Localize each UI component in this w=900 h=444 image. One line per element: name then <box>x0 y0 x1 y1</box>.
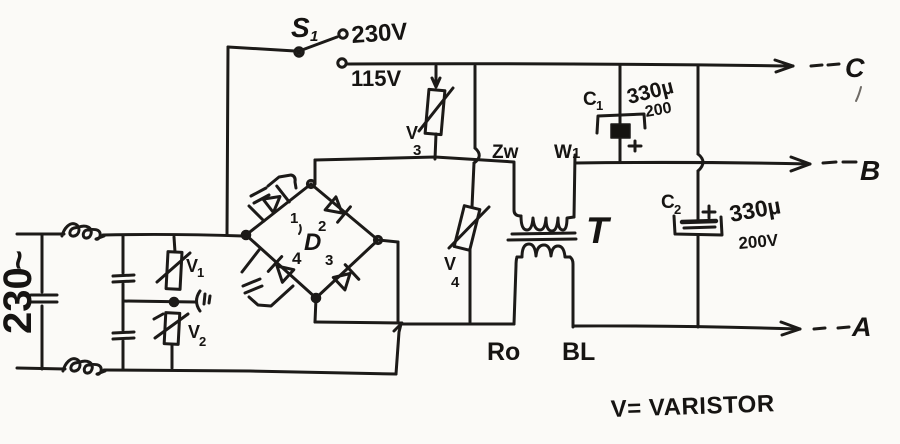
varistor V4 diagonal stroke <box>449 207 489 248</box>
varistor V2 tick <box>154 314 163 319</box>
svg-text:B: B <box>860 155 880 186</box>
svg-text:3: 3 <box>413 142 421 159</box>
wire: node Zw horizontal from bridge top to transformer primary <box>315 157 514 162</box>
svg-text:200V: 200V <box>738 231 780 253</box>
dash marks rail B <box>823 162 856 163</box>
snubber capacitor D4 plates <box>243 279 262 293</box>
svg-text:C: C <box>661 192 675 213</box>
svg-text:~: ~ <box>0 250 38 270</box>
transformer core lines <box>508 233 576 240</box>
varistor V1 top lead <box>174 237 175 252</box>
capacitor C2 plus sign <box>703 206 715 218</box>
transformer primary winding <box>521 216 574 231</box>
capacitor C2 plates <box>682 221 716 222</box>
wire hop over rail B <box>698 154 703 171</box>
varistor V2 bottom lead <box>171 345 174 368</box>
svg-text:1: 1 <box>596 98 603 113</box>
snubber capacitor loop over D4: upper link <box>242 250 259 272</box>
bridge edge left-top <box>246 184 311 235</box>
junction node dot V1-V2 midpoint <box>170 298 178 306</box>
wire from top-left corner to S1 pivot <box>228 47 295 51</box>
diode D2 cathode bar <box>338 207 351 222</box>
bridge vertex left <box>242 231 250 239</box>
switch S1 230V contact <box>339 30 347 38</box>
filter capacitor column middle segment <box>122 284 125 330</box>
diode D2 triangle <box>325 197 342 213</box>
wire junction to transformer primary Ro <box>401 323 514 326</box>
svg-text:Zw: Zw <box>492 142 519 163</box>
varistor V4 bottom lead <box>469 249 472 322</box>
varistor V2 body <box>164 313 180 345</box>
svg-text:V= VARISTOR: V= VARISTOR <box>610 390 775 423</box>
filter capacitor column upper segment <box>122 236 125 273</box>
switch S1 115V contact <box>338 59 346 67</box>
transformer primary lead left riser <box>514 163 521 216</box>
wire bridge right vertex to drop <box>378 240 398 242</box>
transformer secondary lead left riser Ro <box>514 257 517 324</box>
svg-text:2: 2 <box>318 218 326 235</box>
bridge vertex top <box>307 180 314 187</box>
capacitor C1 bracket <box>597 114 645 133</box>
arrowhead rail B <box>791 157 810 171</box>
wire hop over Zw line <box>474 148 479 163</box>
svg-text:330µ: 330µ <box>727 192 782 227</box>
filter capacitor plates upper <box>113 275 134 282</box>
svg-text:1: 1 <box>290 210 298 227</box>
varistor V4 body <box>454 206 480 251</box>
stray pen apostrophe right margin <box>856 87 861 101</box>
stray pen comma below diode 1 label <box>299 225 301 234</box>
wire bottom vertex to junction <box>315 322 401 323</box>
bridge edge top-right <box>311 184 378 240</box>
svg-text:S: S <box>291 12 310 43</box>
varistor V4 upper lead <box>472 163 474 207</box>
wire drop right vertex down <box>397 242 400 321</box>
svg-text:BL: BL <box>562 338 595 366</box>
varistor V1 body <box>166 252 182 290</box>
wire: output rail A <box>573 326 800 329</box>
wire midpoint to filter column <box>123 301 195 302</box>
AC top rail left stub <box>17 233 64 236</box>
svg-text:1: 1 <box>310 28 318 45</box>
transformer primary lead right riser <box>574 155 575 217</box>
varistor V2 diagonal stroke <box>155 314 188 338</box>
AC source left vertical lower <box>41 306 44 369</box>
svg-text:C: C <box>583 89 597 110</box>
bridge edge left-bottom <box>246 235 316 298</box>
diode D3 triangle <box>333 274 350 290</box>
capacitor across source: plates <box>31 295 57 302</box>
AC source left vertical upper <box>41 234 44 292</box>
bridge vertex bottom <box>312 294 320 302</box>
choke squiggle top <box>62 224 104 240</box>
svg-text:V: V <box>406 123 418 143</box>
snubber capacitor loop over D1: upper link <box>268 175 296 188</box>
transformer secondary winding <box>517 244 570 257</box>
arrowhead rail C <box>775 60 793 72</box>
svg-text:230: 230 <box>0 267 40 334</box>
capacitor C2 lower lead <box>697 236 700 327</box>
wire bridge bottom vertex drop <box>315 298 316 322</box>
varistor V3 top lead with arrow <box>435 66 438 85</box>
svg-text:3: 3 <box>325 252 333 269</box>
snubber capacitor loop over D1: lower link <box>249 206 264 221</box>
bridge vertex right <box>374 236 381 243</box>
svg-text:2: 2 <box>199 334 206 349</box>
junction tick at node Ro <box>394 323 402 331</box>
wire: output rail C from 115V contact <box>347 64 793 66</box>
diode D4 triangle <box>277 266 294 282</box>
bridge edge bottom-right <box>316 240 378 298</box>
AC top rail to bridge <box>103 234 243 236</box>
svg-text:A: A <box>851 312 872 342</box>
svg-text:T: T <box>586 210 612 251</box>
dash marks rail C <box>811 64 839 66</box>
varistor V3 diagonal stroke <box>419 88 453 131</box>
capacitor C2 lead to plate <box>697 171 700 221</box>
riser bottom rail up to junction <box>396 324 401 374</box>
wire vertical from corner down to AC top rail <box>227 47 228 235</box>
diode D3 cathode bar <box>345 265 359 280</box>
filter capacitor column lower segment <box>122 341 125 370</box>
chassis mark arc <box>197 291 201 311</box>
AC bottom rail to riser <box>104 370 396 374</box>
svg-text:200: 200 <box>644 100 673 121</box>
diode D1 triangle <box>263 197 280 213</box>
svg-text:4: 4 <box>292 249 302 268</box>
wire riser bridge top vertex to Zw line <box>314 160 317 184</box>
snubber capacitor D1 plates <box>251 188 269 203</box>
varistor V1 diagonal stroke <box>157 253 190 282</box>
svg-text:Ro: Ro <box>487 338 520 366</box>
varistor V3 body <box>425 89 445 134</box>
wire: output rail B <box>575 162 810 164</box>
filter capacitor plates lower <box>113 332 134 339</box>
capacitor C2 vertical upper lead <box>697 66 700 154</box>
switch S1 blade <box>302 37 337 50</box>
svg-text:1: 1 <box>572 145 580 162</box>
choke squiggle bottom <box>63 359 105 375</box>
varistor V3 bottom lead <box>435 134 436 159</box>
switch S1 pivot contact <box>295 48 303 56</box>
capacitor C2 cup <box>674 216 722 235</box>
diode D4 cathode bar <box>268 257 281 272</box>
AC bottom rail left stub <box>17 368 65 369</box>
capacitor C1 vertical lead <box>619 66 622 162</box>
chassis mark ticks <box>204 294 210 304</box>
svg-text:115V: 115V <box>351 66 401 91</box>
diode D1 cathode bar <box>277 186 289 202</box>
svg-text:W: W <box>554 142 572 163</box>
arrowhead rail A <box>781 322 800 335</box>
svg-text:C: C <box>845 53 865 83</box>
svg-text:1: 1 <box>197 265 204 280</box>
varistor V4 top lead from rail C <box>474 66 477 148</box>
capacitor C1 body blob <box>611 124 630 138</box>
svg-text:4: 4 <box>451 274 460 291</box>
svg-text:2: 2 <box>674 202 681 217</box>
snubber capacitor loop over D4: lower link <box>249 286 293 306</box>
capacitor C1 plus sign <box>629 141 641 151</box>
transformer secondary lead right riser BL <box>570 257 573 327</box>
svg-text:230V: 230V <box>351 18 409 49</box>
dash marks rail A <box>814 327 849 329</box>
svg-text:V: V <box>444 254 456 274</box>
